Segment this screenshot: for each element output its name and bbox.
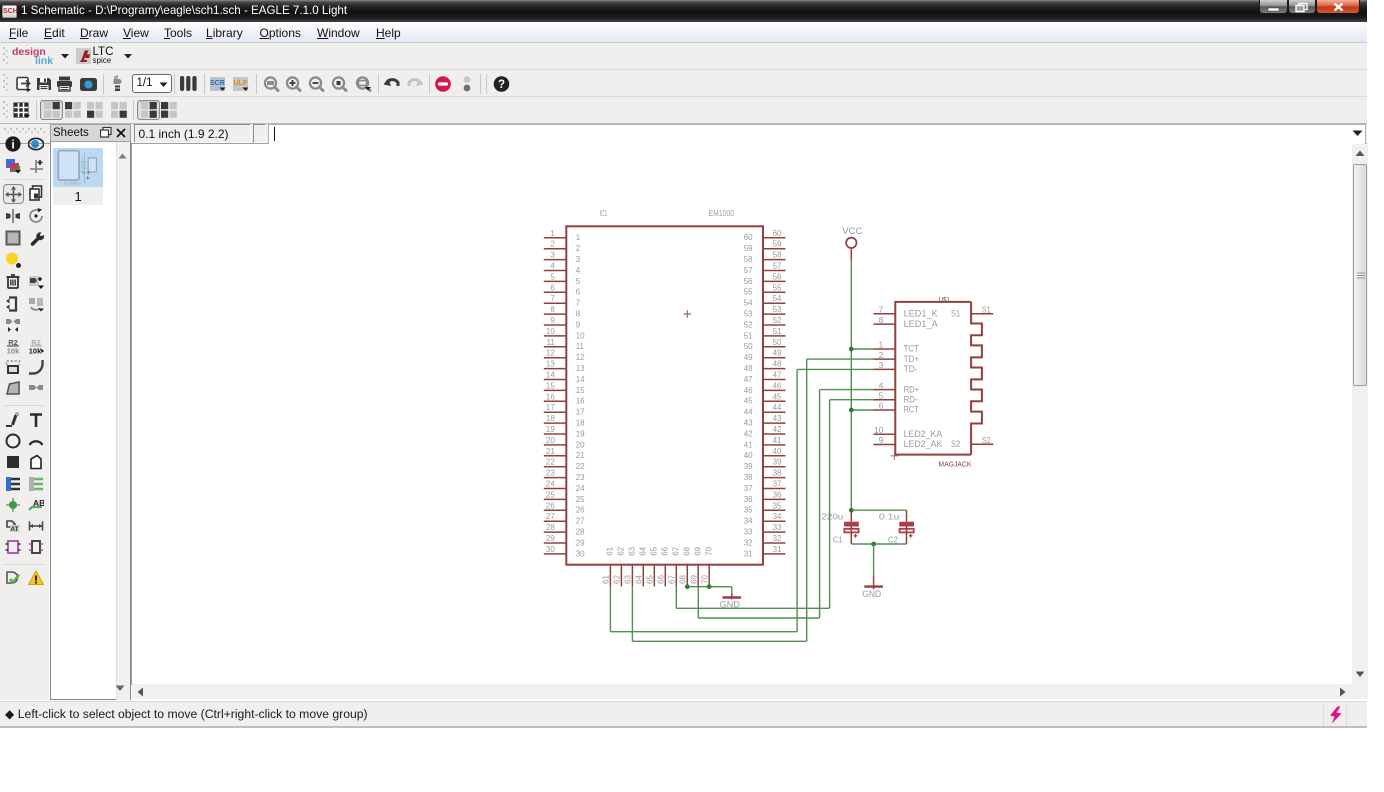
svg-text:65: 65 xyxy=(650,546,659,555)
svg-text:34: 34 xyxy=(773,512,782,521)
U$1 pin 5 RD- xyxy=(874,390,918,405)
svg-text:23: 23 xyxy=(546,468,555,477)
svg-text:38: 38 xyxy=(773,468,782,477)
svg-text:U$1: U$1 xyxy=(939,296,950,303)
svg-text:3: 3 xyxy=(879,360,884,370)
svg-text:25: 25 xyxy=(546,490,555,499)
IC1 pin 34 (right) xyxy=(744,512,786,525)
svg-text:54: 54 xyxy=(773,294,782,303)
svg-text:2: 2 xyxy=(550,239,555,248)
svg-text:220u: 220u xyxy=(821,511,843,521)
svg-text:50: 50 xyxy=(773,337,782,346)
svg-text:49: 49 xyxy=(744,353,753,362)
svg-text:69: 69 xyxy=(690,574,699,583)
IC1 pin 1 (left) xyxy=(544,228,581,241)
svg-text:30: 30 xyxy=(576,549,585,558)
IC1 pin 12 (left) xyxy=(544,348,585,361)
IC1 pin 13 (left) xyxy=(544,359,585,372)
wire net TD+ vertical up xyxy=(806,359,808,641)
svg-text:35: 35 xyxy=(773,501,782,510)
wire C1 bottom to C2 bottom xyxy=(851,543,906,545)
IC1 pin 36 (right) xyxy=(744,490,786,503)
svg-text:45: 45 xyxy=(773,392,782,401)
svg-text:S2: S2 xyxy=(951,438,960,449)
svg-text:41: 41 xyxy=(773,435,782,444)
IC1 pin 63 (bottom) xyxy=(624,546,637,586)
IC1 pin 59 (right) xyxy=(744,239,786,252)
svg-text:11: 11 xyxy=(546,337,555,346)
svg-text:26: 26 xyxy=(546,501,555,510)
svg-text:AB: AB xyxy=(33,498,44,508)
svg-text:37: 37 xyxy=(744,483,753,492)
IC1 pin 70 (bottom) xyxy=(701,546,714,586)
IC1 pin 4 (left) xyxy=(544,261,581,274)
U$1 pin S2 xyxy=(951,435,993,450)
svg-text:20: 20 xyxy=(546,435,555,444)
svg-text:36: 36 xyxy=(773,490,782,499)
wire net RD- horizontal xyxy=(676,607,829,609)
svg-text:14: 14 xyxy=(576,374,585,383)
svg-text:14: 14 xyxy=(546,370,555,379)
svg-text:26: 26 xyxy=(576,505,585,514)
svg-text:25: 25 xyxy=(576,494,585,503)
svg-text:70: 70 xyxy=(701,574,710,583)
svg-text:11: 11 xyxy=(576,342,585,351)
IC1 pin 5 (left) xyxy=(544,272,581,285)
svg-text:31: 31 xyxy=(744,549,753,558)
wire pin68 to pin70 to GND1 horizontal xyxy=(687,585,732,587)
svg-text:C1: C1 xyxy=(833,534,843,544)
wire net RD- pin67 down xyxy=(675,586,677,608)
capacitor C2 xyxy=(899,510,914,544)
wire VCC vertical from VCC symbol to C1 xyxy=(850,259,852,509)
svg-text:47: 47 xyxy=(773,370,782,379)
svg-text:27: 27 xyxy=(546,512,555,521)
U$1 pin 9 LED2_AK xyxy=(874,435,943,450)
svg-text:55: 55 xyxy=(773,283,782,292)
svg-text:18: 18 xyxy=(576,418,585,427)
wire net RD- vertical up xyxy=(829,399,831,608)
svg-text:68: 68 xyxy=(679,574,688,583)
IC1 pin 27 (left) xyxy=(544,512,585,525)
U$1 pin 4 RD+ xyxy=(874,380,920,395)
IC1 pin 20 (left) xyxy=(544,435,585,448)
IC1 pin 2 (left) xyxy=(544,239,581,252)
IC1 pin 54 (right) xyxy=(744,294,786,307)
svg-text:64: 64 xyxy=(635,574,644,583)
svg-text:4: 4 xyxy=(879,380,884,390)
svg-text:33: 33 xyxy=(773,523,782,532)
wire net RD+ to pin4 xyxy=(820,388,874,390)
svg-text:C2: C2 xyxy=(888,534,898,544)
IC1 pin 65 (bottom) xyxy=(646,546,659,586)
svg-text:33: 33 xyxy=(744,527,753,536)
IC1 pin 60 (right) xyxy=(744,228,786,241)
wire down to GND2 xyxy=(873,544,875,575)
junction pin68 xyxy=(685,584,690,589)
wire net TD- horizontal xyxy=(610,630,797,632)
svg-text:35: 35 xyxy=(744,505,753,514)
svg-text:10: 10 xyxy=(576,331,585,340)
IC1 pin 67 (bottom) xyxy=(668,546,681,586)
svg-text:69: 69 xyxy=(693,546,702,555)
svg-text:17: 17 xyxy=(576,407,585,416)
svg-text:S2: S2 xyxy=(982,435,991,445)
svg-text:15: 15 xyxy=(576,385,585,394)
svg-text:4: 4 xyxy=(576,265,581,274)
svg-text:8: 8 xyxy=(550,305,555,314)
IC1 pin 28 (left) xyxy=(544,523,585,536)
svg-text:RCT: RCT xyxy=(904,404,919,415)
svg-text:9: 9 xyxy=(576,320,581,329)
IC1 pin 19 (left) xyxy=(544,425,585,438)
svg-text:19: 19 xyxy=(546,425,555,434)
wire net TD+ to pin2 xyxy=(807,358,874,360)
svg-text:49: 49 xyxy=(773,348,782,357)
IC1 pin 10 (left) xyxy=(544,326,585,339)
svg-text:10: 10 xyxy=(874,424,884,434)
svg-text:AT: AT xyxy=(10,526,18,533)
svg-text:1: 1 xyxy=(879,339,884,349)
svg-text:57: 57 xyxy=(744,265,753,274)
svg-text:22: 22 xyxy=(576,462,585,471)
U$1 pin 6 RCT xyxy=(874,400,919,415)
wire net TD- pin61 down xyxy=(609,586,611,631)
IC1 pin 49 (right) xyxy=(744,348,786,361)
IC1 pin 48 (right) xyxy=(744,359,786,372)
svg-text:61: 61 xyxy=(602,574,611,583)
svg-text:12: 12 xyxy=(576,353,585,362)
svg-text:41: 41 xyxy=(744,440,753,449)
svg-text:8: 8 xyxy=(879,314,884,324)
svg-text:?: ? xyxy=(497,79,504,91)
IC1 pin 41 (right) xyxy=(744,435,786,448)
IC1 pin 51 (right) xyxy=(744,326,786,339)
svg-text:46: 46 xyxy=(773,381,782,390)
IC1 pin 66 (bottom) xyxy=(657,546,670,586)
svg-text:39: 39 xyxy=(773,457,782,466)
svg-text:19: 19 xyxy=(576,429,585,438)
svg-text:10: 10 xyxy=(546,326,555,335)
IC1 pin 64 (bottom) xyxy=(635,546,648,586)
svg-text:36: 36 xyxy=(744,494,753,503)
junction GND caps xyxy=(871,541,876,546)
svg-text:40: 40 xyxy=(744,451,753,460)
U$1 pin 3 TD- xyxy=(874,360,918,375)
svg-text:39: 39 xyxy=(744,462,753,471)
svg-text:47: 47 xyxy=(744,374,753,383)
U$1 origin cross xyxy=(890,451,898,459)
svg-text:9: 9 xyxy=(550,316,555,325)
svg-text:5: 5 xyxy=(576,276,581,285)
IC1 pin 26 (left) xyxy=(544,501,585,514)
svg-text:9: 9 xyxy=(879,435,884,445)
svg-text:63: 63 xyxy=(628,546,637,555)
svg-text:16: 16 xyxy=(576,396,585,405)
svg-text:42: 42 xyxy=(773,425,782,434)
svg-text:58: 58 xyxy=(744,255,753,264)
IC1 pin 56 (right) xyxy=(744,272,786,285)
IC1 pin 33 (right) xyxy=(744,523,786,536)
IC1 pin 52 (right) xyxy=(744,316,786,329)
wire net TD- to pin3 xyxy=(797,368,873,370)
svg-text:5: 5 xyxy=(550,272,555,281)
IC1 pin 35 (right) xyxy=(744,501,786,514)
svg-text:6: 6 xyxy=(550,283,555,292)
svg-text:10k: 10k xyxy=(6,346,19,354)
svg-text:60: 60 xyxy=(773,228,782,237)
svg-text:58: 58 xyxy=(773,250,782,259)
U$1 pin 8 LED1_A xyxy=(874,314,939,329)
capacitor C1 xyxy=(844,510,859,544)
svg-text:2: 2 xyxy=(576,244,581,253)
junction pin70 xyxy=(707,584,712,589)
svg-text:28: 28 xyxy=(546,523,555,532)
wire net RD- to pin5 xyxy=(830,398,874,400)
svg-text:24: 24 xyxy=(546,479,555,488)
svg-text:IC1: IC1 xyxy=(600,208,608,217)
svg-text:64: 64 xyxy=(639,546,648,555)
svg-text:1: 1 xyxy=(550,228,555,237)
svg-text:67: 67 xyxy=(668,574,677,583)
svg-text:15: 15 xyxy=(546,381,555,390)
wire net TD+ horizontal xyxy=(632,640,806,642)
svg-text:63: 63 xyxy=(624,574,633,583)
svg-text:3: 3 xyxy=(550,250,555,259)
IC1 pin 44 (right) xyxy=(744,403,786,416)
svg-text:52: 52 xyxy=(773,316,782,325)
svg-text:S1: S1 xyxy=(982,304,991,314)
svg-text:38: 38 xyxy=(744,473,753,482)
IC1 pin 42 (right) xyxy=(744,425,786,438)
svg-text:5: 5 xyxy=(879,390,884,400)
IC1 pin 17 (left) xyxy=(544,403,585,416)
wire VCC to RCT pin xyxy=(851,409,873,411)
svg-text:VCC: VCC xyxy=(842,226,862,237)
junction VCC/RCT xyxy=(849,407,854,412)
svg-text:43: 43 xyxy=(773,414,782,423)
svg-text:0.1u: 0.1u xyxy=(879,511,900,521)
IC1 pin 53 (right) xyxy=(744,305,786,318)
IC1 pin 47 (right) xyxy=(744,370,786,383)
svg-text:27: 27 xyxy=(576,516,585,525)
U$1 pin 7 LED1_K xyxy=(874,304,939,319)
IC1 pin 9 (left) xyxy=(544,316,581,329)
svg-text:50: 50 xyxy=(744,342,753,351)
wire net TD+ pin63 down xyxy=(631,586,633,641)
svg-text:54: 54 xyxy=(744,298,753,307)
IC1 pin 68 (bottom) xyxy=(679,546,692,586)
svg-text:48: 48 xyxy=(744,364,753,373)
IC1 pin 37 (right) xyxy=(744,479,786,492)
svg-text:i: i xyxy=(11,138,14,152)
IC1 pin 62 (bottom) xyxy=(613,546,626,586)
wire net RD+ vertical up xyxy=(819,389,821,617)
svg-text:44: 44 xyxy=(744,407,753,416)
svg-text:66: 66 xyxy=(661,546,670,555)
junction VCC at C1 top xyxy=(849,507,854,512)
svg-text:53: 53 xyxy=(744,309,753,318)
svg-text:30: 30 xyxy=(546,544,555,553)
wire down to GND1 xyxy=(731,586,733,592)
svg-text:EM1000: EM1000 xyxy=(709,208,735,217)
IC1 pin 32 (right) xyxy=(744,534,786,547)
svg-text:6: 6 xyxy=(576,287,581,296)
svg-text:13: 13 xyxy=(576,364,585,373)
svg-text:53: 53 xyxy=(773,305,782,314)
IC1 pin 11 (left) xyxy=(544,337,585,350)
svg-text:31: 31 xyxy=(773,544,782,553)
svg-text:23: 23 xyxy=(576,473,585,482)
svg-text:2: 2 xyxy=(879,349,884,359)
svg-text:59: 59 xyxy=(773,239,782,248)
svg-text:40: 40 xyxy=(773,446,782,455)
IC1 pin 40 (right) xyxy=(744,446,786,459)
svg-text:24: 24 xyxy=(576,483,585,492)
IC1 pin 23 (left) xyxy=(544,468,585,481)
U$1 pin 10 LED2_KA xyxy=(874,424,943,439)
svg-text:52: 52 xyxy=(744,320,753,329)
svg-text:GND: GND xyxy=(862,589,881,599)
svg-text:29: 29 xyxy=(546,534,555,543)
IC1 pin 25 (left) xyxy=(544,490,585,503)
svg-text:55: 55 xyxy=(744,287,753,296)
IC1 pin 43 (right) xyxy=(744,414,786,427)
wire net RD+ horizontal xyxy=(698,617,819,619)
svg-text:22: 22 xyxy=(546,457,555,466)
svg-text:68: 68 xyxy=(683,546,692,555)
IC1 pin 57 (right) xyxy=(744,261,786,274)
wire VCC horizontal to C2 xyxy=(851,509,906,511)
IC1 pin 22 (left) xyxy=(544,457,585,470)
svg-text:20: 20 xyxy=(576,440,585,449)
wire net TD- vertical up xyxy=(796,369,798,631)
svg-text:18: 18 xyxy=(546,414,555,423)
IC1 pin 50 (right) xyxy=(744,337,786,350)
IC1 origin cross xyxy=(684,310,692,318)
svg-text:32: 32 xyxy=(773,534,782,543)
IC1 pin 38 (right) xyxy=(744,468,786,481)
svg-text:45: 45 xyxy=(744,396,753,405)
svg-text:66: 66 xyxy=(657,574,666,583)
svg-text:7: 7 xyxy=(879,304,884,314)
IC1 pin 16 (left) xyxy=(544,392,585,405)
IC1 pin 8 (left) xyxy=(544,305,581,318)
IC IC1 EM1000 body xyxy=(566,226,763,564)
svg-text:51: 51 xyxy=(744,331,753,340)
svg-text:6: 6 xyxy=(879,400,884,410)
svg-text:8: 8 xyxy=(576,309,581,318)
IC1 pin 21 (left) xyxy=(544,446,585,459)
svg-text:10k: 10k xyxy=(29,346,42,354)
svg-text:21: 21 xyxy=(546,446,555,455)
connector U$1 MAGJACK body xyxy=(895,301,982,454)
IC1 pin 7 (left) xyxy=(544,294,581,307)
svg-text:62: 62 xyxy=(613,574,622,583)
U$1 pin 2 TD+ xyxy=(874,349,920,364)
IC1 pin 24 (left) xyxy=(544,479,585,492)
svg-text:48: 48 xyxy=(773,359,782,368)
U$1 pin 1 TCT xyxy=(874,339,919,354)
svg-text:17: 17 xyxy=(546,403,555,412)
svg-text:7: 7 xyxy=(550,294,555,303)
svg-text:37: 37 xyxy=(773,479,782,488)
svg-text:59: 59 xyxy=(744,244,753,253)
IC1 pin 15 (left) xyxy=(544,381,585,394)
junction VCC/TCT xyxy=(849,346,854,351)
IC1 pin 14 (left) xyxy=(544,370,585,383)
svg-text:4: 4 xyxy=(550,261,555,270)
svg-text:51: 51 xyxy=(773,326,782,335)
svg-text:56: 56 xyxy=(744,276,753,285)
svg-text:44: 44 xyxy=(773,403,782,412)
ground GND1 symbol xyxy=(723,593,742,599)
IC1 pin 45 (right) xyxy=(744,392,786,405)
IC1 pin 18 (left) xyxy=(544,414,585,427)
svg-text:21: 21 xyxy=(576,451,585,460)
IC1 pin 3 (left) xyxy=(544,250,581,263)
svg-text:57: 57 xyxy=(773,261,782,270)
svg-text:43: 43 xyxy=(744,418,753,427)
svg-text:LED2_AK: LED2_AK xyxy=(904,439,943,450)
svg-text:56: 56 xyxy=(773,272,782,281)
IC1 pin 29 (left) xyxy=(544,534,585,547)
svg-text:32: 32 xyxy=(744,538,753,547)
IC1 pin 61 (bottom) xyxy=(602,546,615,586)
IC1 pin 69 (bottom) xyxy=(690,546,703,586)
svg-text:1: 1 xyxy=(576,233,581,242)
svg-text:34: 34 xyxy=(744,516,753,525)
svg-text:42: 42 xyxy=(744,429,753,438)
svg-text:46: 46 xyxy=(744,385,753,394)
svg-text:65: 65 xyxy=(646,574,655,583)
svg-text:16: 16 xyxy=(546,392,555,401)
IC1 pin 46 (right) xyxy=(744,381,786,394)
svg-text:67: 67 xyxy=(672,546,681,555)
wire net RD+ pin69 down xyxy=(697,586,699,618)
IC1 pin 55 (right) xyxy=(744,283,786,296)
svg-text:7: 7 xyxy=(576,298,581,307)
wire VCC to TCT pin xyxy=(851,348,873,350)
svg-text:TD-: TD- xyxy=(904,364,918,375)
svg-text:13: 13 xyxy=(546,359,555,368)
svg-text:29: 29 xyxy=(576,538,585,547)
svg-text:28: 28 xyxy=(576,527,585,536)
svg-text:61: 61 xyxy=(606,546,615,555)
IC1 pin 31 (right) xyxy=(744,544,786,557)
IC1 pin 6 (left) xyxy=(544,283,581,296)
ground GND2 symbol xyxy=(864,575,883,589)
IC1 pin 30 (left) xyxy=(544,544,585,557)
supply symbol VCC xyxy=(846,237,856,259)
svg-text:62: 62 xyxy=(617,546,626,555)
U$1 pin S1 xyxy=(951,304,993,319)
svg-text:12: 12 xyxy=(546,348,555,357)
IC1 pin 39 (right) xyxy=(744,457,786,470)
svg-text:LED1_A: LED1_A xyxy=(904,318,939,329)
svg-text:60: 60 xyxy=(744,233,753,242)
svg-text:S1: S1 xyxy=(951,308,960,319)
svg-text:MAGJACK: MAGJACK xyxy=(938,461,971,468)
svg-text:70: 70 xyxy=(704,546,713,555)
svg-text:3: 3 xyxy=(576,255,581,264)
IC1 pin 58 (right) xyxy=(744,250,786,263)
